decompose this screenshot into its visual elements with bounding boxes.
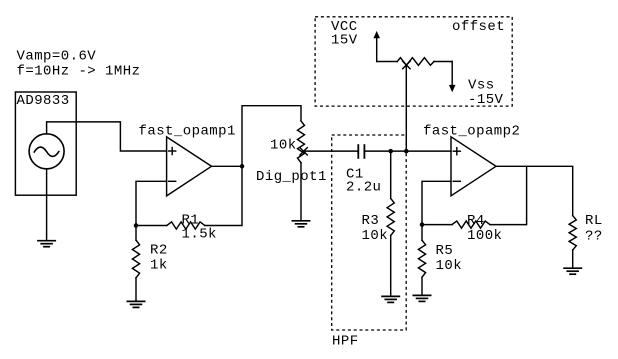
svg-text:HPF: HPF <box>332 334 359 350</box>
svg-text:fast_opamp2: fast_opamp2 <box>423 124 520 140</box>
svg-text:R5: R5 <box>436 243 454 259</box>
svg-text:100k: 100k <box>467 228 502 244</box>
svg-text:10k: 10k <box>362 228 389 244</box>
svg-text:1k: 1k <box>150 257 168 273</box>
svg-text:offset: offset <box>452 19 505 35</box>
svg-text:R3: R3 <box>362 213 380 229</box>
svg-text:10k: 10k <box>436 258 463 274</box>
svg-text:-15V: -15V <box>468 92 504 108</box>
svg-text:RL: RL <box>585 213 603 229</box>
svg-text:f=10Hz -> 1MHz: f=10Hz -> 1MHz <box>17 64 141 80</box>
svg-text:fast_opamp1: fast_opamp1 <box>139 124 236 140</box>
svg-text:1.5k: 1.5k <box>182 227 217 243</box>
svg-text:R4: R4 <box>467 213 485 229</box>
svg-text:Dig_pot1: Dig_pot1 <box>256 169 327 185</box>
svg-text:??: ?? <box>585 229 603 245</box>
svg-text:Vamp=0.6V: Vamp=0.6V <box>17 49 97 65</box>
svg-text:10k: 10k <box>270 137 297 153</box>
svg-text:2.2u: 2.2u <box>346 179 381 195</box>
svg-text:R2: R2 <box>150 243 168 259</box>
svg-text:15V: 15V <box>331 32 358 48</box>
svg-text:AD9833: AD9833 <box>17 93 70 109</box>
